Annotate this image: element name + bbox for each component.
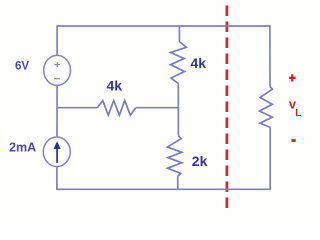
I1 arrow xyxy=(56,149,58,163)
load resistor RL zigzag xyxy=(260,86,273,127)
label plus terminal xyxy=(289,74,296,81)
V1 minus mark xyxy=(54,78,60,80)
svg-text:4k: 4k xyxy=(191,55,207,71)
wire middle horizontal left (node A to R1) xyxy=(57,107,97,109)
wire middle branch bottom (R3 to bottom rail) xyxy=(177,176,179,190)
wire middle branch center (R2 to node B to R3) xyxy=(177,84,179,136)
svg-text:6V: 6V xyxy=(15,61,29,73)
V1 plus mark xyxy=(54,62,60,67)
wire left branch middle (V1 to I1) xyxy=(56,85,58,137)
wire bottom rail xyxy=(57,188,270,190)
resistor R3 2k zigzag xyxy=(168,136,182,177)
voltage source V1 6V circle xyxy=(44,55,71,85)
wire left branch lower (I1 to bottom rail) xyxy=(56,167,58,190)
svg-text:L: L xyxy=(295,108,301,119)
resistor R2 4k vertical zigzag xyxy=(171,42,187,84)
wire left branch upper (top rail to V1) xyxy=(56,25,58,55)
resistor R1 4k horizontal zigzag xyxy=(97,101,135,116)
wire middle branch top (top rail to R2) xyxy=(178,25,180,41)
wire middle horizontal right (R1 to node B) xyxy=(136,107,180,109)
wire right branch lower (RL to bottom rail) xyxy=(269,127,271,190)
svg-text:2k: 2k xyxy=(192,153,208,169)
wire right branch upper (top rail to RL) xyxy=(269,25,271,86)
svg-text:4k: 4k xyxy=(107,78,123,94)
cut line red dashed xyxy=(225,6,228,211)
current source I1 2mA circle xyxy=(43,137,70,167)
label minus terminal xyxy=(292,139,296,142)
wire top rail xyxy=(57,25,270,27)
svg-text:2mA: 2mA xyxy=(9,140,36,154)
